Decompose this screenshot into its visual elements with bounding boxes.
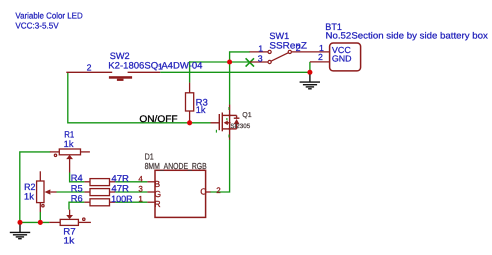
- wire net source to D1 C pin: [210, 140, 230, 192]
- switch SW2: [66, 71, 160, 73]
- svg-text:1: 1: [138, 195, 143, 204]
- junction dot: [187, 120, 192, 125]
- svg-text:1: 1: [258, 43, 263, 53]
- ground symbol left: [10, 225, 30, 239]
- potentiometer R2: [37, 171, 57, 212]
- wire bottom ground rail: [20, 221, 49, 223]
- ground symbol right: [300, 75, 320, 89]
- resistor R4: [84, 179, 115, 186]
- svg-text:R1: R1: [64, 129, 74, 139]
- potentiometer R1: [50, 149, 90, 173]
- svg-text:2: 2: [87, 63, 92, 73]
- svg-text:2: 2: [216, 186, 221, 195]
- wire R6 to D1 R: [115, 201, 147, 203]
- wire R7 wiper to R6: [69, 202, 84, 209]
- svg-text:3: 3: [258, 53, 263, 63]
- svg-text:ON/OFF: ON/OFF: [139, 114, 177, 125]
- svg-text:1k: 1k: [24, 191, 35, 201]
- svg-text:Q1: Q1: [242, 112, 251, 119]
- svg-text:GND: GND: [332, 53, 352, 63]
- wire net SW2 pin1 to GND rail y72.3: [160, 71, 310, 73]
- svg-text:G: G: [154, 189, 161, 199]
- svg-text:SSRenZ: SSRenZ: [269, 41, 307, 51]
- svg-text:C: C: [200, 187, 207, 197]
- svg-text:4: 4: [138, 174, 143, 183]
- svg-text:47R: 47R: [111, 174, 129, 184]
- svg-text:3: 3: [138, 185, 143, 194]
- junction dot: [38, 220, 43, 225]
- svg-text:R5: R5: [71, 183, 83, 193]
- wire net ON/OFF from SW2 pin2 down and right to gate: [68, 72, 211, 123]
- svg-text:SW1: SW1: [269, 31, 289, 41]
- wire drain branch down: [229, 62, 231, 105]
- wire R1 wiper to R4: [70, 173, 85, 182]
- svg-text:B: B: [154, 179, 160, 189]
- wire R2 wiper to R5: [57, 191, 85, 193]
- svg-text:K2-1806SQ-A4DW-04: K2-1806SQ-A4DW-04: [108, 60, 202, 70]
- wire R4 to D1 B: [115, 181, 147, 183]
- wire up to BT1 GND pin: [309, 62, 311, 72]
- potentiometer R7: [49, 210, 91, 226]
- switch SW1: [250, 52, 330, 62]
- battery BT1: [310, 61, 330, 63]
- svg-text:100R: 100R: [111, 194, 133, 204]
- svg-text:47R: 47R: [111, 184, 129, 194]
- svg-text:1k: 1k: [64, 139, 74, 149]
- wire R2 bottom: [39, 212, 41, 222]
- junction dot: [307, 70, 312, 75]
- svg-text:VCC:3-5.5V: VCC:3-5.5V: [15, 21, 59, 31]
- resistor R6: [84, 199, 115, 206]
- svg-text:1k: 1k: [196, 105, 206, 116]
- resistor R3: [189, 83, 191, 93]
- svg-text:D1: D1: [145, 151, 154, 161]
- svg-text:2: 2: [296, 43, 301, 53]
- svg-text:R: R: [154, 199, 160, 209]
- wire R5 to D1 G: [115, 191, 147, 193]
- wire R3 top branch: [189, 61, 191, 82]
- wire branch up to SW1 pin1: [230, 52, 250, 63]
- svg-text:R4: R4: [71, 173, 83, 183]
- wire net drain rail y62: [190, 61, 250, 63]
- svg-text:Variable Color LED: Variable Color LED: [15, 11, 82, 21]
- svg-text:8MM_ANODE_RGB: 8MM_ANODE_RGB: [145, 161, 207, 171]
- svg-text:R6: R6: [71, 194, 83, 204]
- svg-text:1k: 1k: [63, 235, 74, 245]
- svg-text:No.52Section side by side batt: No.52Section side by side battery box: [326, 30, 489, 40]
- junction dot: [227, 59, 232, 64]
- junction dot: [17, 220, 22, 225]
- transistor Q1: [211, 105, 240, 140]
- svg-text:SI2305: SI2305: [230, 123, 250, 130]
- svg-text:2: 2: [318, 52, 323, 62]
- resistor R5: [84, 189, 115, 196]
- LED module D1: [155, 170, 206, 217]
- no-connect X on SW1 pin3: [246, 58, 254, 66]
- wire R1 left to ground rail: [20, 152, 51, 223]
